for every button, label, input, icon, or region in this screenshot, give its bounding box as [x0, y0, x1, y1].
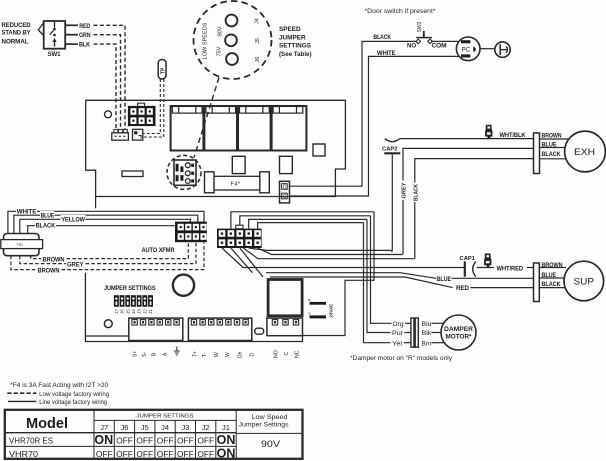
svg-text:J5: J5 [125, 309, 130, 314]
svg-text:OFF: OFF [116, 436, 133, 446]
board corner stub [95, 197, 97, 209]
svg-text:BLACK: BLACK [374, 35, 392, 41]
main control board outline [86, 100, 346, 196]
jumper links 24VAC [308, 298, 334, 318]
speed jumper magnifier dashed circle [194, 1, 272, 79]
svg-text:*F4 is 3A Fast Acting with I2T: *F4 is 3A Fast Acting with I2T >20 [10, 383, 109, 389]
svg-text:Blu: Blu [422, 322, 432, 328]
speed jumper header J4-J6 on board [167, 155, 201, 189]
svg-text:CAP1: CAP1 [460, 256, 476, 262]
svg-text:EXH: EXH [574, 147, 595, 158]
wire receptacle to plug [480, 48, 495, 50]
svg-text:C: C [283, 194, 287, 200]
ground symbol label [174, 347, 180, 356]
svg-text:W: W [214, 352, 220, 357]
svg-text:J4: J4 [255, 18, 261, 24]
wires bar to EXH motor [540, 138, 570, 140]
wire GRN dashed from SW1 to board terminal [94, 35, 121, 130]
wire riser to Yel [258, 223, 364, 229]
svg-text:J7: J7 [114, 309, 119, 314]
svg-text:24VAC: 24VAC [329, 303, 334, 318]
svg-text:NO: NO [274, 350, 280, 358]
svg-text:T-: T- [202, 352, 208, 357]
wire harness to BLACK [243, 248, 414, 259]
svg-text:BLUE: BLUE [542, 142, 557, 148]
SW1 terminal RED [65, 24, 91, 30]
svg-text:NC: NC [295, 350, 301, 358]
wire CAP2 down to harness [391, 154, 393, 251]
pad between blocks [255, 328, 264, 334]
svg-text:(See Table): (See Table) [279, 51, 312, 58]
wire CAP1 to SUP bar [477, 267, 494, 269]
svg-text:VHR70R ES: VHR70R ES [9, 436, 54, 445]
svg-text:WHT/BLK: WHT/BLK [500, 133, 527, 139]
connector 8-pin AUTO XFMR [175, 222, 207, 243]
wire BLUE with diagonal [266, 273, 436, 279]
svg-text:BLUE: BLUE [542, 273, 557, 279]
svg-text:BROWN: BROWN [38, 269, 60, 275]
capacitor CAP2 [382, 139, 400, 154]
transformer TR1 [1, 234, 43, 256]
svg-text:SW3: SW3 [417, 21, 423, 32]
dashed pointer line from magnifier to board jumpers [194, 78, 219, 158]
svg-text:TR1: TR1 [17, 243, 24, 247]
svg-text:CAP2: CAP2 [382, 147, 398, 153]
connector C 2-pin [280, 181, 290, 203]
wires bar to SUP motor [539, 267, 566, 269]
svg-text:SETTINGS: SETTINGS [279, 43, 312, 50]
svg-text:Jumper Settings: Jumper Settings [239, 423, 289, 429]
SW1 terminal BLK [65, 43, 91, 49]
svg-text:Brn: Brn [422, 341, 432, 347]
wire harness to CAP1 [222, 248, 464, 268]
connector 6-pin [128, 103, 156, 126]
motor SUP [564, 261, 604, 301]
connector bar SUP [534, 263, 540, 302]
wire BLK dashed from SW1 to board terminal [94, 44, 117, 129]
svg-text:J5: J5 [141, 423, 149, 432]
svg-text:DAMPER: DAMPER [444, 326, 473, 333]
svg-text:J4: J4 [161, 423, 169, 432]
terminal block 1 [129, 318, 183, 340]
svg-text:90V: 90V [261, 439, 281, 449]
mounting hole [105, 111, 112, 118]
svg-text:JUMPER: JUMPER [279, 34, 306, 41]
capacitor pad rect 1 [232, 156, 245, 173]
wire Org [371, 216, 392, 323]
thermal probe TP [158, 60, 166, 80]
wire RED dashed from SW1 to board terminal [94, 25, 126, 129]
svg-text:F4*: F4* [231, 182, 241, 188]
wire BROWN 2 dashed xfmr to connector [11, 243, 204, 275]
svg-text:BROWN: BROWN [542, 134, 562, 140]
wire YELLOW xfmr to 8-pin [20, 215, 191, 234]
svg-text:C: C [284, 352, 290, 356]
svg-text:De: De [238, 351, 244, 358]
svg-text:BLUE: BLUE [437, 277, 452, 283]
svg-text:JUMPER SETTINGS: JUMPER SETTINGS [104, 286, 156, 292]
receptacle PC [456, 37, 480, 61]
wire riser to Pur [249, 219, 367, 228]
svg-text:OFF: OFF [177, 436, 194, 446]
splice on WHT/BLK wire [486, 126, 492, 139]
svg-text:Pur: Pur [392, 331, 403, 337]
svg-text:BLACK: BLACK [542, 282, 562, 288]
wire BROWN dashed xfmr to connector [31, 243, 189, 264]
svg-text:STAND BY: STAND BY [2, 31, 31, 37]
labels NO C NC [274, 350, 301, 358]
svg-text:OFF: OFF [116, 449, 133, 459]
svg-text:Model: Model [26, 416, 68, 432]
wire WHITE from board C terminal to receptacle [289, 56, 459, 196]
svg-text:COM: COM [432, 43, 447, 49]
svg-text:OFF: OFF [177, 449, 194, 459]
svg-text:J1: J1 [222, 423, 230, 432]
svg-text:MOTOR*: MOTOR* [446, 334, 473, 341]
jumper J4 circle [226, 15, 238, 27]
svg-text:*Door switch if present*: *Door switch if present* [365, 9, 437, 15]
svg-text:Org: Org [393, 322, 404, 328]
svg-text:J6: J6 [255, 57, 261, 63]
svg-text:BLACK: BLACK [414, 184, 420, 201]
labels block 2 [192, 351, 255, 358]
wire RED with diagonal [270, 277, 453, 288]
text SPEED JUMPER SETTINGS [279, 26, 312, 58]
svg-text:AUTO XFMR: AUTO XFMR [142, 248, 176, 254]
connector bar EXH [534, 133, 540, 174]
svg-text:PC: PC [462, 47, 471, 54]
mounting hole lower [104, 320, 112, 328]
svg-text:S+: S+ [133, 351, 139, 357]
svg-text:WHITE: WHITE [17, 209, 37, 215]
terminal board outline [85, 273, 302, 342]
svg-text:90V: 90V [218, 26, 224, 37]
svg-text:RED: RED [79, 24, 91, 30]
damper connector bars [411, 318, 414, 347]
capacitor CAP1 [460, 256, 476, 277]
svg-text:D: D [250, 353, 256, 357]
wire GREY vertical [399, 148, 534, 254]
damper motor [441, 315, 476, 350]
switch SW1 mode selector [2, 21, 66, 58]
svg-text:S-: S- [142, 352, 148, 357]
svg-text:GRN: GRN [79, 33, 91, 39]
fuse F4 [205, 172, 270, 193]
buzzer circle [173, 275, 194, 296]
legend low voltage wiring [7, 392, 36, 394]
svg-text:J1: J1 [148, 309, 153, 314]
svg-text:REDUCED: REDUCED [2, 23, 32, 29]
svg-text:C: C [283, 185, 287, 191]
motor EXH [565, 131, 606, 172]
svg-text:BLK: BLK [79, 43, 91, 49]
wire Brn [432, 342, 445, 344]
svg-text:BLACK: BLACK [36, 223, 56, 229]
svg-text:Line voltage factory wiring: Line voltage factory wiring [39, 400, 107, 406]
svg-text:75V: 75V [217, 46, 223, 57]
svg-text:J7: J7 [100, 423, 108, 432]
svg-text:Blk: Blk [422, 331, 433, 337]
svg-text:ON: ON [217, 433, 236, 447]
splice on WHT/RED wire [485, 254, 491, 267]
svg-text:J4: J4 [131, 309, 136, 314]
svg-text:RED: RED [456, 286, 470, 292]
wire GREY dashed xfmr to connector [20, 243, 196, 269]
svg-text:J3: J3 [137, 309, 142, 314]
svg-text:GREY: GREY [402, 182, 408, 198]
svg-text:*Damper motor on "R" models on: *Damper motor on "R" models only [350, 356, 452, 362]
wire COM to receptacle [431, 40, 458, 42]
wire board edge to terminal block [85, 335, 128, 337]
terminal block 3-pin (SW1 wires) [112, 129, 129, 140]
svg-text:LOW SPEEDS: LOW SPEEDS [203, 22, 209, 60]
wire NC terminal loop [303, 212, 375, 336]
svg-text:Low Speed: Low Speed [252, 415, 288, 421]
labels block 1 [133, 351, 169, 357]
svg-text:J2: J2 [202, 423, 210, 432]
jumper J6 circle [226, 53, 238, 65]
svg-text:BROWN: BROWN [542, 263, 563, 269]
svg-text:J5: J5 [255, 38, 261, 44]
svg-text:OFF: OFF [136, 436, 153, 446]
wire harness to CAP2 [249, 248, 392, 250]
wire Blu [432, 322, 445, 324]
pad bar left [122, 171, 143, 177]
svg-text:ON: ON [94, 433, 113, 447]
svg-text:ON: ON [217, 447, 236, 461]
svg-text:NORMAL: NORMAL [2, 40, 29, 46]
terminal block 2 [188, 318, 251, 340]
relay transformer square [268, 280, 302, 316]
svg-text:OFF: OFF [197, 449, 214, 459]
table J columns [100, 423, 230, 432]
svg-text:OFF: OFF [197, 436, 214, 446]
svg-text:YELLOW: YELLOW [61, 218, 85, 224]
wire Yel [364, 223, 391, 343]
svg-text:WHT/RED: WHT/RED [497, 266, 524, 272]
capacitor pad rect 2 [280, 156, 293, 173]
plug symbol [495, 42, 510, 57]
wire BLACK from board C terminal to door switch NO [289, 41, 416, 186]
wire riser to NC loop [231, 212, 374, 229]
wire BLACK xfmr to 8-pin [28, 221, 183, 234]
svg-text:OFF: OFF [136, 449, 153, 459]
svg-text:J3: J3 [181, 423, 189, 432]
jumper settings table [5, 410, 303, 459]
jumper J5 circle [225, 34, 237, 46]
wire harness to GREY [258, 248, 403, 255]
svg-text:VHR70: VHR70 [9, 450, 38, 459]
junction CAP2 harness corner [391, 250, 393, 252]
svg-text:J6: J6 [121, 423, 129, 432]
wire BLUE xfmr to 8-pin [14, 211, 198, 234]
wire WHITE xfmr to 8-pin [8, 207, 204, 234]
wire TP dashed pair to board terminal [143, 79, 160, 134]
wire riser to Org [240, 216, 371, 225]
connector 10-pin harness [217, 225, 262, 248]
svg-text:SUP: SUP [574, 277, 595, 288]
wire CAP2 to EXH brown [400, 138, 534, 140]
svg-text:BROWN: BROWN [43, 258, 65, 264]
wire Pur [367, 219, 391, 332]
wire harness to RED [240, 248, 263, 277]
wire harness to BLUE [231, 248, 253, 273]
svg-text:JUMPER SETTINGS: JUMPER SETTINGS [137, 414, 194, 420]
svg-text:WHITE: WHITE [377, 51, 396, 57]
terminal block 2-pin (TP wires) [133, 129, 143, 140]
wire Blk [432, 332, 442, 334]
svg-text:BLACK: BLACK [542, 152, 562, 158]
jumper block J7-J1 [114, 295, 153, 314]
svg-text:J6: J6 [120, 309, 125, 314]
svg-text:OFF: OFF [157, 436, 174, 446]
svg-text:W: W [225, 352, 231, 357]
svg-text:BLUE: BLUE [41, 214, 55, 220]
legend line voltage wiring [8, 400, 36, 402]
svg-text:GREY: GREY [67, 263, 84, 269]
svg-text:OFF: OFF [157, 449, 174, 459]
svg-text:J2: J2 [142, 309, 147, 314]
terminal block 3 NO C NC [267, 318, 303, 336]
switch SW3 [416, 21, 432, 43]
svg-text:SW1: SW1 [48, 52, 62, 58]
svg-text:SPEED: SPEED [279, 26, 301, 33]
SW1 terminal GRN [65, 33, 90, 39]
svg-text:T+: T+ [192, 351, 198, 357]
svg-text:OFF: OFF [96, 449, 113, 459]
svg-text:TP: TP [160, 67, 166, 74]
pad square [313, 144, 325, 156]
svg-text:NO: NO [407, 43, 416, 49]
wire BLACK vertical [411, 159, 534, 259]
relay bank K1-K4 [171, 106, 307, 151]
svg-text:Yel: Yel [392, 341, 402, 347]
svg-text:Low voltage factory wiring: Low voltage factory wiring [39, 392, 109, 398]
